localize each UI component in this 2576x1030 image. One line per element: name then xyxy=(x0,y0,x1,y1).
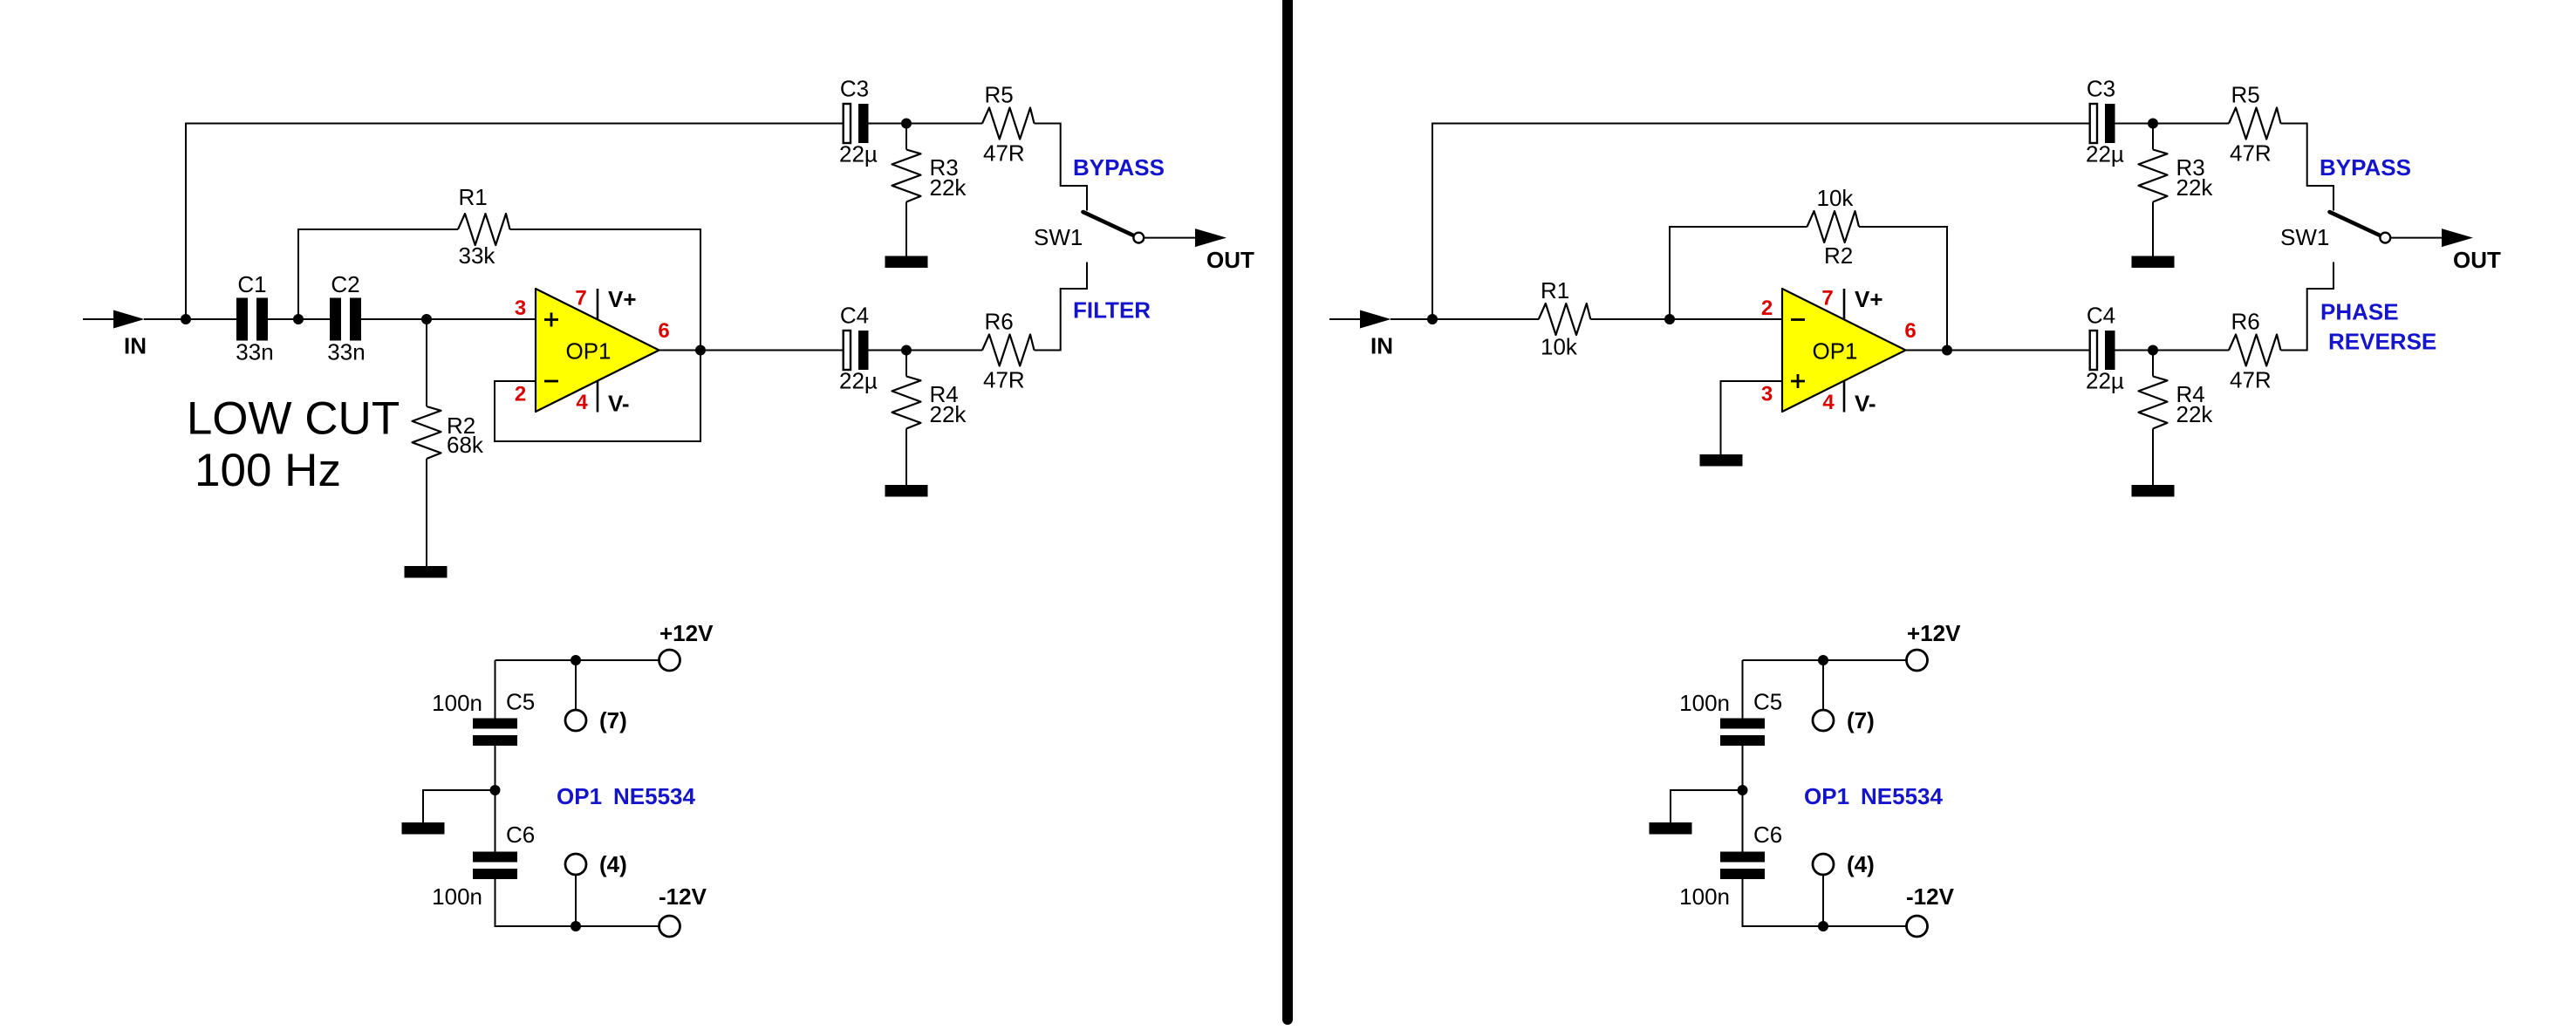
ground below R4 (R) xyxy=(2132,485,2175,497)
svg-text:NE5534: NE5534 xyxy=(1861,783,1943,809)
wire switch to OUT (L) xyxy=(1145,237,1196,239)
svg-text:22µ: 22µ xyxy=(2086,141,2124,167)
wire to pin7 terminal (L) xyxy=(575,660,577,710)
switch SW1 lever (L) xyxy=(1083,212,1134,235)
wire rail to C5 (L) xyxy=(495,660,496,719)
resistor R2 10k (R) xyxy=(1807,211,1860,242)
wire C1 to C2 (L) xyxy=(268,318,330,320)
svg-text:22k: 22k xyxy=(930,401,967,427)
wire C5 to C6 (L) xyxy=(495,746,496,852)
wire node down to R2 (L) xyxy=(426,319,427,406)
svg-text:BYPASS: BYPASS xyxy=(1073,154,1165,181)
svg-text:10k: 10k xyxy=(1541,334,1578,360)
ground below R3 (L) xyxy=(885,256,928,269)
node op-amp output (R) xyxy=(1942,345,1952,356)
svg-text:C3: C3 xyxy=(2087,76,2115,102)
svg-text:REVERSE: REVERSE xyxy=(2328,329,2436,355)
node C4-R4 junction (R) xyxy=(2148,345,2158,356)
svg-text:47R: 47R xyxy=(2230,140,2272,167)
svg-text:C6: C6 xyxy=(1753,822,1782,848)
op-amp pin4 tick (R) xyxy=(1843,380,1846,412)
node +12V junction (R) xyxy=(1818,655,1828,665)
svg-text:3: 3 xyxy=(1761,383,1773,406)
capacitor C5 100n (R) xyxy=(1720,719,1765,747)
terminal pin4 (R) xyxy=(1813,854,1834,875)
capacitor C5 100n (L) xyxy=(473,719,517,747)
svg-text:(7): (7) xyxy=(599,707,627,733)
svg-text:C4: C4 xyxy=(840,303,869,329)
wire supply top rail (R) xyxy=(1743,659,1907,661)
svg-text:C1: C1 xyxy=(237,271,266,297)
svg-text:OP1: OP1 xyxy=(1812,338,1857,365)
wire R3 to ground (L) xyxy=(905,202,907,256)
node +12V junction (L) xyxy=(571,655,581,665)
svg-text:33n: 33n xyxy=(327,339,365,365)
node C2-R2 junction (L) xyxy=(421,314,432,324)
wire R1 to output node (L) xyxy=(510,229,701,351)
svg-text:10k: 10k xyxy=(1817,185,1855,211)
wire R4 to ground (R) xyxy=(2152,429,2154,486)
svg-text:22µ: 22µ xyxy=(839,368,878,394)
wire node up to R1 (L) xyxy=(298,229,458,319)
node -12V junction (R) xyxy=(1818,921,1828,931)
wire R5 to switch bypass contact (L) xyxy=(1035,124,1088,211)
resistor R2 68k (L) xyxy=(413,406,441,459)
op-amp pin4 tick (L) xyxy=(597,380,599,412)
terminal -12V (R) xyxy=(1907,916,1928,937)
wire to pin7 terminal (R) xyxy=(1822,660,1824,710)
wire C4 to R6 (R) xyxy=(2115,350,2230,351)
resistor R5 47R (R) xyxy=(2229,108,2281,140)
svg-text:68k: 68k xyxy=(447,432,484,458)
wire C6 to bottom rail (R) xyxy=(1743,879,1907,926)
wire C3 to R5 (L) xyxy=(869,123,983,125)
node IN arrow (L) xyxy=(113,310,145,329)
ground below R4 (L) xyxy=(885,485,928,497)
ground supply mid (R) xyxy=(1650,822,1692,835)
wire input node up to C3 (L) xyxy=(186,124,843,320)
svg-text:(7): (7) xyxy=(1847,707,1875,733)
wire op-amp output to C4 (L) xyxy=(659,350,843,351)
svg-text:FILTER: FILTER xyxy=(1073,297,1151,324)
svg-text:V-: V- xyxy=(1855,391,1876,417)
svg-text:C3: C3 xyxy=(840,76,869,102)
svg-text:OP1: OP1 xyxy=(557,783,602,809)
op-amp pin7 tick (L) xyxy=(597,289,599,320)
wire C2 to op-amp pin3 (L) xyxy=(361,318,536,320)
terminal +12V (R) xyxy=(1907,650,1928,671)
svg-text:22k: 22k xyxy=(2176,174,2214,201)
svg-text:(4): (4) xyxy=(599,851,627,877)
wire node down to R4 (L) xyxy=(905,351,907,377)
node supply mid (R) xyxy=(1738,785,1748,795)
svg-text:4: 4 xyxy=(1822,391,1835,414)
wire pin4 terminal to rail (L) xyxy=(575,875,577,926)
svg-text:R1: R1 xyxy=(1541,277,1569,304)
capacitor C3 22u (R) xyxy=(2090,104,2115,143)
wire IN to C1 (L) xyxy=(144,318,236,320)
node op-amp output (L) xyxy=(695,345,706,356)
svg-text:OUT: OUT xyxy=(2453,247,2501,273)
svg-text:33k: 33k xyxy=(459,242,496,269)
svg-text:100n: 100n xyxy=(1679,690,1730,716)
resistor R4 22k (R) xyxy=(2139,377,2168,429)
node OUT arrow (L) xyxy=(1195,229,1227,247)
op-amp OP1 (L) xyxy=(536,289,659,412)
resistor R1 33k (L) xyxy=(458,214,510,245)
svg-text:3: 3 xyxy=(515,297,526,320)
ground below R2 (L) xyxy=(405,566,448,578)
wire R3 to ground (R) xyxy=(2152,202,2154,256)
wire mid node to ground (L) xyxy=(423,790,495,822)
wire R6 to switch filter contact (L) xyxy=(1035,263,1088,351)
wire R6 to switch filter contact (R) xyxy=(2281,263,2334,351)
node C3-R3 junction (R) xyxy=(2148,119,2158,129)
svg-text:IN: IN xyxy=(1370,333,1393,359)
svg-text:33n: 33n xyxy=(236,339,273,365)
svg-text:100 Hz: 100 Hz xyxy=(195,445,341,496)
svg-text:22k: 22k xyxy=(2176,401,2214,427)
svg-text:R5: R5 xyxy=(2231,82,2260,108)
svg-text:100n: 100n xyxy=(432,883,482,910)
op-amp minus mark (R) xyxy=(1791,318,1805,321)
svg-text:47R: 47R xyxy=(983,367,1025,393)
op-amp OP1 (R) xyxy=(1782,289,1906,412)
svg-text:100n: 100n xyxy=(1679,883,1730,910)
ground at pin3 (R) xyxy=(1700,454,1743,467)
svg-text:6: 6 xyxy=(658,319,669,343)
svg-text:2: 2 xyxy=(515,383,526,406)
divider between channels xyxy=(1282,0,1293,1020)
svg-text:C5: C5 xyxy=(506,689,535,715)
wire C3 to R5 (R) xyxy=(2115,123,2230,125)
terminal pin7 (R) xyxy=(1813,710,1834,731)
wire supply top rail (L) xyxy=(495,659,659,661)
wire pin3 to ground (R) xyxy=(1721,381,1783,454)
resistor R6 47R (L) xyxy=(982,335,1035,366)
op-amp pin7 tick (R) xyxy=(1843,289,1846,320)
svg-text:V+: V+ xyxy=(1855,286,1883,312)
svg-text:SW1: SW1 xyxy=(1034,224,1083,250)
wire pin4 terminal to rail (R) xyxy=(1822,875,1824,926)
svg-text:R2: R2 xyxy=(1824,242,1853,269)
svg-text:NE5534: NE5534 xyxy=(613,783,695,809)
svg-text:LOW CUT: LOW CUT xyxy=(187,393,400,445)
capacitor C2 (L) xyxy=(330,298,361,341)
capacitor C1 (L) xyxy=(236,298,268,341)
wire node up to R2 (R) xyxy=(1670,227,1807,319)
node OUT arrow (R) xyxy=(2442,229,2473,247)
svg-text:R5: R5 xyxy=(985,82,1014,108)
node C4-R4 junction (L) xyxy=(901,345,912,356)
resistor R5 47R (L) xyxy=(982,108,1035,140)
node -12V junction (L) xyxy=(571,921,581,931)
svg-text:PHASE: PHASE xyxy=(2320,299,2399,325)
wire C5 to C6 (R) xyxy=(1742,746,1744,852)
wire R2 to output node (R) xyxy=(1859,227,1947,351)
node C3-R3 junction (L) xyxy=(901,119,912,129)
node input junction (R) xyxy=(1427,314,1438,324)
terminal -12V (L) xyxy=(659,916,680,937)
svg-text:6: 6 xyxy=(1904,319,1916,343)
resistor R4 22k (L) xyxy=(892,377,921,429)
wire IN to node (R) xyxy=(1390,318,1483,320)
wire node down to R4 (R) xyxy=(2152,351,2154,377)
svg-text:OP1: OP1 xyxy=(1804,783,1849,809)
wire mid node to ground (R) xyxy=(1671,790,1743,822)
capacitor C4 22u (R) xyxy=(2090,331,2115,370)
capacitor C6 100n (L) xyxy=(473,852,517,880)
resistor R6 47R (R) xyxy=(2229,335,2281,366)
resistor R3 22k (R) xyxy=(2139,150,2168,202)
svg-text:47R: 47R xyxy=(983,140,1025,167)
op-amp plus mark (L) xyxy=(544,313,558,327)
terminal +12V (L) xyxy=(659,650,680,671)
svg-text:C4: C4 xyxy=(2087,303,2115,329)
node R1-R2 junction (R) xyxy=(1664,314,1675,324)
switch SW1 pole contact (L) xyxy=(1133,233,1144,243)
node supply mid (L) xyxy=(490,785,501,795)
op-amp plus mark (R) xyxy=(1791,374,1805,388)
wire R4 to ground (L) xyxy=(905,429,907,486)
wire input lead (R) xyxy=(1329,318,1360,320)
terminal pin7 (L) xyxy=(565,710,586,731)
node C1-C2 junction (L) xyxy=(293,314,304,324)
op-amp minus mark (L) xyxy=(544,380,558,383)
svg-text:C5: C5 xyxy=(1753,689,1782,715)
wire R2 to ground (L) xyxy=(426,459,427,566)
wire feedback loop to pin2 (L) xyxy=(495,351,700,442)
svg-text:R6: R6 xyxy=(2231,309,2260,335)
svg-text:IN: IN xyxy=(124,333,147,359)
node IN arrow (R) xyxy=(1360,310,1391,329)
svg-text:OUT: OUT xyxy=(1206,247,1254,273)
svg-text:(4): (4) xyxy=(1847,851,1875,877)
svg-text:22µ: 22µ xyxy=(839,141,878,167)
svg-text:22k: 22k xyxy=(930,174,967,201)
svg-text:+12V: +12V xyxy=(1907,620,1961,646)
wire to R1 (R) xyxy=(1483,318,1539,320)
svg-text:SW1: SW1 xyxy=(2280,224,2329,250)
svg-text:C6: C6 xyxy=(506,822,535,848)
wire node down to R3 (L) xyxy=(905,124,907,150)
capacitor C3 22u (L) xyxy=(844,104,869,143)
svg-text:7: 7 xyxy=(575,287,586,310)
svg-text:47R: 47R xyxy=(2230,367,2272,393)
ground supply mid (L) xyxy=(402,822,445,835)
wire R1 to op-amp pin2 (R) xyxy=(1590,318,1782,320)
resistor R1 10k (R) xyxy=(1539,304,1591,335)
svg-text:-12V: -12V xyxy=(1906,883,1955,910)
ground below R3 (R) xyxy=(2132,256,2175,269)
wire C4 to R6 (L) xyxy=(869,350,983,351)
wire op-amp output to C4 (R) xyxy=(1906,350,2089,351)
svg-text:V+: V+ xyxy=(608,286,637,312)
svg-text:+12V: +12V xyxy=(659,620,714,646)
svg-text:OP1: OP1 xyxy=(565,338,611,365)
wire switch to OUT (R) xyxy=(2391,237,2443,239)
svg-text:4: 4 xyxy=(576,391,588,414)
svg-text:7: 7 xyxy=(1821,287,1833,310)
svg-text:22µ: 22µ xyxy=(2086,368,2124,394)
resistor R3 22k (L) xyxy=(892,150,921,202)
wire C6 to bottom rail (L) xyxy=(495,879,659,926)
wire input node up to C3 (R) xyxy=(1432,124,2089,320)
switch SW1 pole contact (R) xyxy=(2380,233,2390,243)
switch SW1 lever (R) xyxy=(2330,212,2381,235)
svg-text:V-: V- xyxy=(608,391,630,417)
wire R5 to switch bypass contact (R) xyxy=(2281,124,2334,211)
svg-text:R1: R1 xyxy=(459,184,488,210)
svg-text:100n: 100n xyxy=(432,690,482,716)
svg-text:C2: C2 xyxy=(331,271,359,297)
wire rail to C5 (R) xyxy=(1742,660,1744,719)
terminal pin4 (L) xyxy=(565,854,586,875)
svg-text:2: 2 xyxy=(1761,297,1773,320)
node input junction (L) xyxy=(181,314,191,324)
wire input lead (L) xyxy=(83,318,113,320)
capacitor C4 22u (L) xyxy=(844,331,869,370)
svg-text:BYPASS: BYPASS xyxy=(2320,154,2411,181)
svg-text:R6: R6 xyxy=(985,309,1014,335)
capacitor C6 100n (R) xyxy=(1720,852,1765,880)
wire node down to R3 (R) xyxy=(2152,124,2154,150)
svg-text:-12V: -12V xyxy=(659,883,707,910)
